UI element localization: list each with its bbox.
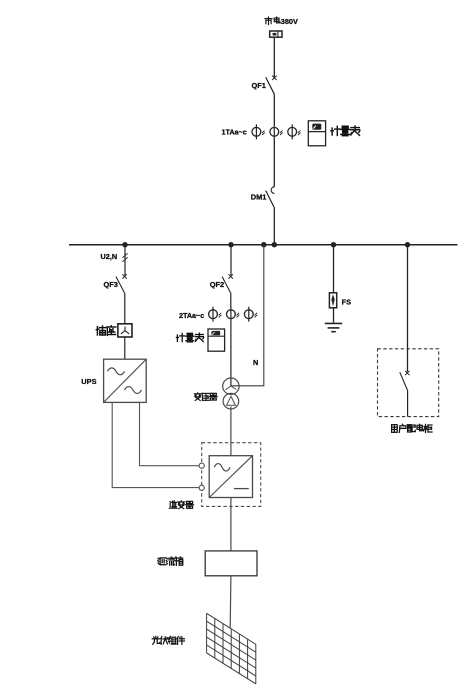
label QF2	[210, 280, 224, 289]
inverter input terminal 2	[199, 485, 204, 490]
bus junction node (incoming main)	[272, 242, 277, 247]
socket box 插座	[118, 324, 132, 337]
label 计量表 (middle)	[176, 333, 203, 342]
wire QF1 to CT row	[273, 94, 275, 124]
inverter input terminal 1	[199, 463, 204, 468]
CT 1TAa current transformer c	[288, 124, 301, 139]
breaker QF3	[116, 274, 127, 293]
wire bus to QF3	[124, 245, 126, 276]
wire UPS output 1 (down then right)	[140, 402, 199, 465]
label 2TAa~c	[179, 311, 204, 320]
user distribution cabinet enclosure (dashed)	[378, 349, 439, 417]
bus junction node (user cabinet branch)	[405, 242, 410, 247]
wire bus to QF2	[230, 245, 232, 276]
label 市电380V (mains 380V)	[265, 17, 298, 26]
svg-text:2TAa~c: 2TAa~c	[179, 311, 204, 320]
bus junction node (N branch)	[261, 242, 266, 247]
svg-text:N: N	[253, 358, 258, 367]
ground symbol	[325, 323, 342, 331]
wire transformer to inverter	[230, 407, 232, 456]
svg-text:1TAa~c: 1TAa~c	[222, 128, 247, 137]
breaker QF2	[222, 274, 233, 293]
combiner box 汇流箱	[205, 551, 257, 576]
svg-text:380V: 380V	[281, 17, 298, 26]
wire bus to user cabinet	[407, 245, 409, 372]
wire socket to UPS	[124, 337, 126, 359]
label FS	[342, 298, 352, 307]
label 插座	[96, 326, 116, 336]
label 光伏组件	[152, 636, 184, 644]
wire N from bus to transformer	[231, 245, 264, 386]
bus junction node (FS branch)	[331, 242, 336, 247]
inverter U2 box	[209, 456, 252, 498]
wire arrester to ground	[333, 308, 335, 323]
bus junction node (QF2 branch)	[228, 242, 233, 247]
transformer T1 primary winding (wye)	[223, 378, 239, 394]
svg-text:QF3: QF3	[104, 280, 118, 289]
meter box (top) 计量表	[308, 121, 325, 146]
inverter enclosure (dashed)	[202, 443, 261, 507]
UPS unit U1	[104, 359, 147, 402]
svg-text:QF2: QF2	[210, 280, 224, 289]
svg-text:QF1: QF1	[252, 81, 266, 90]
wire from terminal to QF1	[273, 37, 275, 77]
label N	[253, 358, 258, 367]
svg-text:U2,N: U2,N	[101, 252, 118, 261]
wire inverter to combiner box	[230, 498, 232, 551]
wire combiner to PV array	[229, 576, 232, 629]
label UPS	[81, 377, 96, 386]
label 变压器	[194, 393, 217, 401]
wire CT row to transformer	[230, 322, 232, 387]
breaker inside user cabinet	[400, 371, 410, 391]
svg-text:FS: FS	[342, 298, 352, 307]
label DM1	[251, 193, 267, 202]
svg-text:UPS: UPS	[81, 377, 96, 386]
wire UPS output 2 (down then right)	[112, 402, 199, 487]
surge arrester FS	[329, 293, 336, 308]
label QF3	[104, 280, 118, 289]
label 1TAa~c	[222, 128, 247, 137]
disconnector DM1	[266, 187, 275, 208]
label U2,N	[101, 252, 118, 261]
bus bar	[69, 244, 458, 246]
CT 2TAa current transformer a	[209, 307, 222, 322]
transformer T1 secondary winding (delta)	[223, 393, 239, 409]
CT 2TAa current transformer c	[244, 307, 257, 322]
PV array 光伏组件 (panel grid)	[207, 613, 256, 684]
wire breaker to cabinet bottom	[407, 391, 409, 417]
wire bus to arrester FS	[333, 245, 335, 293]
label QF1	[252, 81, 266, 90]
wire DM1 to bus	[273, 208, 275, 245]
two-wire mark U2,N	[122, 253, 127, 261]
wire QF3 to socket	[124, 293, 126, 324]
CT 2TAa current transformer b	[227, 307, 240, 322]
meter box (middle) 计量表	[208, 329, 225, 351]
label 汇流箱	[158, 557, 183, 565]
terminal box (mains connection)	[270, 31, 282, 37]
svg-text:DM1: DM1	[251, 193, 267, 202]
wire CT row to DM1	[273, 139, 275, 187]
bus junction node (left branch)	[122, 242, 127, 247]
CT 1TAa current transformer a	[252, 124, 265, 139]
label 逆变器	[169, 501, 193, 509]
breaker QF1	[266, 76, 277, 95]
CT 1TAa current transformer b	[270, 124, 283, 139]
label 用户配电柜	[392, 424, 432, 432]
label 计量表 (top)	[331, 126, 360, 136]
wire QF2 to CT row	[230, 293, 232, 307]
